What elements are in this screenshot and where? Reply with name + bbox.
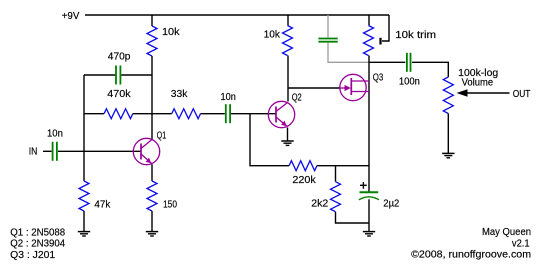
resistor 10k (Q2 collector load) [264, 15, 293, 56]
ground under Volume pot [442, 153, 454, 157]
trimmer 10k trim [364, 15, 437, 56]
transistor Q3 J201 [340, 73, 384, 101]
ground under 2u2 [363, 232, 375, 236]
resistor 150 [147, 164, 177, 231]
svg-text:2µ2: 2µ2 [383, 199, 399, 210]
resistor 470k feedback [84, 89, 152, 119]
wire 2u2 bottom to ground [368, 199, 370, 231]
svg-text:10k: 10k [162, 27, 181, 38]
wire Q2 emitter [287, 128, 289, 142]
resistor 2k2 [311, 166, 369, 223]
wire Q3 drain/source column [368, 56, 370, 193]
capacitor 470p feedback [84, 52, 152, 85]
ground under 150 [146, 232, 158, 236]
svg-text:©2008, runoffgroove.com: ©2008, runoffgroove.com [411, 249, 531, 260]
svg-text:Q3: Q3 [373, 73, 384, 84]
svg-text:10k trim: 10k trim [395, 30, 436, 41]
capacitor 10n input [43, 129, 141, 161]
title block [411, 227, 531, 260]
svg-text:47k: 47k [94, 200, 111, 211]
transistor Q1 2N5088 [133, 130, 166, 164]
capacitor 2u2 electrolytic [359, 182, 400, 210]
svg-text:Q2: Q2 [292, 93, 302, 104]
wire 10n to 220k branch [250, 114, 289, 166]
svg-text:Q3 : J201: Q3 : J201 [10, 250, 55, 261]
svg-text:IN: IN [29, 147, 38, 158]
svg-text:+9V: +9V [62, 11, 80, 22]
resistor 220k [289, 161, 369, 186]
capacitor 100n output [369, 53, 448, 88]
potentiometer 100k-log Volume [443, 68, 498, 114]
svg-text:v2.1: v2.1 [512, 238, 530, 249]
wire left feedback vertical [83, 75, 85, 181]
svg-text:Q1 : 2N5088: Q1 : 2N5088 [10, 227, 65, 238]
svg-text:Q2 : 2N3904: Q2 : 2N3904 [10, 239, 65, 250]
svg-text:470p: 470p [108, 52, 131, 63]
svg-text:OUT: OUT [513, 89, 531, 100]
wire Q1 collector node vertical [151, 56, 153, 140]
capacitor filter (gray rail bypass) [318, 15, 369, 62]
svg-text:2k2: 2k2 [311, 199, 328, 210]
svg-text:220k: 220k [292, 175, 316, 186]
wire Q2 collector vertical [287, 56, 289, 102]
svg-text:100n: 100n [399, 77, 420, 88]
power rail +9V [62, 11, 389, 22]
transistor Q2 2N3904 [268, 93, 302, 128]
svg-text:10k: 10k [264, 30, 281, 41]
svg-text:May Queen: May Queen [482, 227, 531, 238]
legend transistor list [10, 227, 65, 260]
node OUT with wiper arrow [457, 89, 531, 100]
resistor 10k (Q1 collector load) [147, 15, 181, 56]
ground under 47k [78, 232, 90, 236]
svg-text:33k: 33k [171, 89, 189, 100]
svg-text:Volume: Volume [462, 78, 494, 89]
resistor 47k [79, 181, 111, 232]
wire pot bottom [447, 114, 449, 154]
ground under Q2 [281, 141, 293, 145]
svg-text:Q1: Q1 [157, 130, 167, 141]
svg-text:10n: 10n [47, 129, 63, 140]
svg-text:10n: 10n [221, 92, 236, 103]
wire Q2 collector to Q3 gate [288, 87, 340, 89]
resistor 33k [152, 89, 225, 119]
capacitor 10n interstage [221, 92, 277, 123]
svg-text:470k: 470k [107, 89, 131, 100]
svg-text:150: 150 [163, 200, 177, 211]
